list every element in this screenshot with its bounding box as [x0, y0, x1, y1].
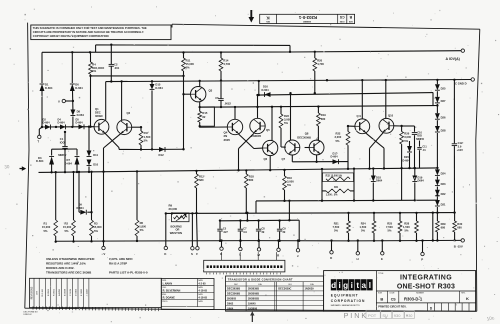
- svg-text:5%: 5%: [94, 229, 98, 233]
- wire gnd rail: [106, 80, 471, 97]
- resistor R22: [346, 125, 355, 170]
- svg-text:D: D: [330, 256, 332, 260]
- terminal E: [381, 239, 384, 260]
- resistor R6: [135, 170, 139, 242]
- svg-text:UNLESS OTHERWISE INDICATED:: UNLESS OTHERWISE INDICATED:: [46, 257, 95, 261]
- svg-text:EIA: EIA: [310, 283, 314, 286]
- svg-text:D664: D664: [418, 179, 425, 183]
- svg-text:IOO,OOO: IOO,OOO: [92, 66, 104, 70]
- svg-text:Q2: Q2: [127, 111, 131, 115]
- svg-text:K: K: [466, 296, 469, 301]
- potentiometer R9: [171, 212, 189, 222]
- svg-text:82: 82: [202, 115, 205, 119]
- svg-text:C1: C1: [60, 137, 64, 141]
- svg-text:THIS SCHEMATIC IS FURNISHED ON: THIS SCHEMATIC IS FURNISHED ONLY FOR TES…: [33, 26, 147, 30]
- wire mid rail: [39, 168, 438, 173]
- svg-text:30: 30: [4, 164, 10, 169]
- svg-text:1N3606: 1N3606: [248, 306, 258, 310]
- svg-text:SIZE: SIZE: [348, 20, 353, 22]
- R17 label: [144, 131, 151, 142]
- svg-text:7,500: 7,500: [386, 225, 393, 229]
- svg-text:4-18-65: 4-18-65: [198, 290, 207, 293]
- svg-text:.0022: .0022: [224, 102, 231, 106]
- capacitor C5: [217, 219, 222, 242]
- wire terminal F: [195, 212, 197, 247]
- wire cross to D12 rail: [119, 148, 141, 150]
- svg-text:1,500: 1,500: [360, 225, 367, 229]
- svg-text:1N645: 1N645: [248, 301, 256, 305]
- svg-text:680: 680: [457, 225, 462, 229]
- resistor R17: [139, 127, 143, 151]
- R26 label: [404, 132, 411, 143]
- svg-text:2N3639B: 2N3639B: [248, 287, 259, 291]
- svg-text:D-664: D-664: [58, 121, 66, 125]
- wire terminal S: [191, 212, 193, 246]
- C2 label: [114, 62, 120, 70]
- svg-text:R12: R12: [199, 175, 204, 179]
- svg-text:5%: 5%: [334, 229, 338, 233]
- svg-text:5%: 5%: [336, 139, 340, 143]
- C8 label: [262, 228, 266, 235]
- wire Q6 emitter: [269, 156, 271, 172]
- svg-text:CODE: CODE: [339, 20, 345, 22]
- svg-text:D-664: D-664: [77, 206, 85, 210]
- svg-text:CAPS. ARE MFD: CAPS. ARE MFD: [109, 257, 133, 261]
- D6 label: [75, 83, 83, 90]
- svg-text:t: t: [356, 281, 359, 290]
- D3 label: [36, 156, 44, 163]
- capacitor C11: [417, 141, 427, 168]
- svg-text:R4: R4: [92, 62, 96, 66]
- svg-text:DEC3009B: DEC3009B: [227, 292, 240, 296]
- svg-text:5%: 5%: [92, 69, 96, 73]
- svg-text:REVISIONS: REVISIONS: [32, 286, 34, 299]
- svg-text:R. DOANE: R. DOANE: [163, 297, 176, 300]
- svg-text:PARTS LIST A-PL-R303-0-0: PARTS LIST A-PL-R303-0-0: [109, 271, 148, 275]
- wire rail 196: [256, 200, 437, 213]
- sheet right border: [476, 29, 480, 311]
- svg-text:D-664: D-664: [262, 88, 270, 92]
- wire D6 branch: [71, 52, 74, 109]
- svg-text:D-664: D-664: [65, 161, 73, 165]
- svg-text:E Q U I P M E N T: E Q U I P M E N T: [331, 294, 358, 298]
- svg-text:C O R P O R A T I O N: C O R P O R A T I O N: [331, 299, 365, 303]
- revisions table: [30, 278, 162, 307]
- svg-text:Q1: Q1: [95, 107, 99, 111]
- handwritten PINK: [344, 311, 367, 320]
- svg-text:A IOV(A): A IOV(A): [446, 57, 460, 61]
- svg-text:WESTON: WESTON: [170, 231, 182, 235]
- terminal T: [37, 127, 42, 143]
- svg-text:1,800: 1,800: [139, 225, 146, 229]
- svg-text:Q7: Q7: [282, 157, 286, 161]
- sheet top border: [172, 24, 480, 29]
- svg-text:L.NAHN: L.NAHN: [163, 283, 173, 286]
- wire D12 row: [141, 148, 185, 150]
- svg-text:Q6: Q6: [264, 157, 268, 161]
- svg-text:D-664: D-664: [155, 86, 163, 90]
- svg-text:i: i: [351, 281, 353, 290]
- transistor Q1: [94, 119, 109, 134]
- svg-text:D-664: D-664: [36, 159, 44, 163]
- svg-text:C9: C9: [283, 228, 287, 231]
- terminal V: [102, 246, 106, 256]
- svg-text:D: D: [430, 306, 433, 310]
- svg-text:DATE: DATE: [198, 293, 203, 296]
- dec form label: [24, 311, 39, 316]
- svg-text:R23: R23: [284, 114, 289, 118]
- svg-text:V: V: [103, 252, 105, 256]
- svg-text:D21: D21: [441, 202, 446, 206]
- svg-text:A 9858: A 9858: [58, 288, 61, 296]
- transistor Q9: [355, 119, 370, 134]
- Q10 label: [388, 114, 394, 118]
- svg-text:C5: C5: [223, 228, 227, 231]
- diode D4: [60, 124, 66, 129]
- svg-text:ONE-SHOT R303: ONE-SHOT R303: [397, 284, 455, 291]
- R6 label: [139, 221, 146, 232]
- Q9 label: [357, 114, 362, 118]
- sheet left border: [25, 23, 29, 309]
- D28 label: [441, 128, 446, 132]
- Q6 label: [264, 157, 268, 161]
- D15 label: [155, 83, 163, 90]
- terminal A: [461, 49, 464, 52]
- resistor R23: [279, 106, 286, 148]
- svg-text:J 11167: J 11167: [86, 288, 88, 296]
- svg-text:5%: 5%: [44, 229, 48, 233]
- names block: [161, 279, 214, 310]
- D22 label: [441, 192, 446, 196]
- resistor R24: [372, 212, 376, 242]
- R29 label: [441, 222, 446, 230]
- wire R15 bypass loop: [200, 107, 215, 126]
- svg-text:+10V: +10V: [457, 148, 464, 152]
- R25 label: [386, 221, 393, 232]
- resistor R20: [313, 52, 317, 95]
- svg-text:R30: R30: [457, 222, 462, 226]
- svg-text:5%: 5%: [144, 138, 148, 142]
- svg-text:REV: REV: [265, 20, 269, 22]
- C7 label: [243, 228, 247, 235]
- capacitor C6: [215, 96, 231, 108]
- diode D6: [70, 84, 75, 91]
- D19 label: [418, 175, 425, 182]
- svg-text:R21: R21: [334, 221, 339, 225]
- svg-text:S: S: [191, 252, 193, 256]
- Q8 label: [297, 132, 319, 140]
- diode D18: [371, 167, 376, 201]
- svg-text:680: 680: [441, 225, 446, 229]
- resistor R21: [347, 212, 351, 242]
- D4 label: [58, 118, 66, 125]
- svg-text:H: H: [356, 257, 358, 261]
- resistor R30: [453, 211, 457, 241]
- svg-text:C2: C2: [114, 62, 118, 66]
- svg-text:R6: R6: [140, 221, 144, 225]
- D1 label: [45, 83, 53, 90]
- wire R9 rail left end: [165, 212, 167, 246]
- svg-text:PROD.: PROD.: [162, 301, 168, 303]
- terminal D: [330, 239, 333, 259]
- svg-text:R3: R3: [94, 222, 98, 226]
- terminal B: [454, 239, 465, 249]
- svg-text:R19: R19: [321, 113, 326, 117]
- svg-text:B: B: [380, 296, 383, 301]
- resistor R26: [394, 125, 404, 201]
- svg-text:R14: R14: [223, 59, 228, 63]
- resistor R14: [219, 52, 223, 98]
- svg-text:D-664: D-664: [403, 158, 411, 162]
- svg-text:DATE: DATE: [198, 286, 203, 289]
- svg-text:1,500 ; 5%: 1,500 ; 5%: [326, 193, 338, 196]
- svg-text:R. SILVERMAN: R. SILVERMAN: [163, 290, 181, 293]
- svg-text:P: P: [421, 258, 423, 262]
- capacitor C8: [256, 219, 261, 242]
- Q7 label: [282, 157, 286, 161]
- diode D11: [87, 127, 99, 157]
- svg-text:NUMBER: NUMBER: [302, 20, 311, 22]
- wire top rail A (+10V): [42, 51, 461, 53]
- resistor R2: [72, 171, 76, 243]
- svg-text:5%: 5%: [405, 229, 409, 233]
- transistor Q5: [250, 118, 265, 133]
- svg-text:R11: R11: [186, 59, 191, 63]
- svg-text:5%: 5%: [287, 183, 291, 187]
- svg-text:DATE: DATE: [198, 300, 203, 303]
- svg-text:R 9601: R 9601: [54, 288, 56, 296]
- diode D1: [40, 84, 45, 91]
- wire Q9 collector: [361, 79, 363, 119]
- svg-text:10c.: 10c.: [486, 315, 495, 321]
- svg-text:5%: 5%: [388, 229, 392, 233]
- diode D10: [87, 160, 99, 172]
- svg-text:D3: D3: [38, 156, 42, 160]
- R22 label: [335, 132, 342, 143]
- R19 label: [321, 113, 326, 121]
- svg-text:MAYNARD. MASSACHUSETTS: MAYNARD. MASSACHUSETTS: [331, 304, 360, 307]
- transistor Q3: [191, 87, 206, 102]
- wire Q4 collector: [234, 106, 236, 119]
- svg-text:g: g: [343, 281, 348, 290]
- wire diode row: [41, 126, 94, 129]
- Q2 label: [127, 111, 131, 115]
- resistor R31: [322, 187, 354, 196]
- transistor Q8: [309, 140, 324, 155]
- capacitor C7: [238, 219, 243, 242]
- resistor R32: [323, 173, 354, 182]
- C9 label: [283, 228, 287, 235]
- svg-text:T: T: [37, 139, 39, 143]
- svg-text:R29: R29: [441, 222, 446, 226]
- Q3 label: [209, 89, 213, 93]
- svg-text:930: 930: [394, 313, 401, 318]
- svg-text:Q5: Q5: [266, 128, 270, 132]
- resistor R15: [198, 106, 202, 128]
- wire bottom rail: [56, 239, 461, 242]
- svg-text:R22: R22: [336, 132, 341, 136]
- D2 label: [43, 118, 51, 125]
- capacitor C10: [402, 126, 425, 169]
- svg-text:CS: CS: [391, 297, 397, 301]
- D5 label: [76, 118, 84, 125]
- svg-text:D-664: D-664: [75, 86, 83, 90]
- left margin arrow: [20, 166, 27, 171]
- svg-text:4-2-65: 4-2-65: [198, 283, 206, 286]
- connector strip: [204, 260, 285, 274]
- sheet bottom border: [25, 308, 477, 311]
- mid rail dots left: [50, 171, 90, 174]
- diode D19: [412, 167, 417, 202]
- svg-text:DIODES ARE D-662.: DIODES ARE D-662.: [46, 266, 75, 270]
- R9 maker label: [170, 224, 182, 235]
- svg-text:K: K: [266, 15, 270, 20]
- D27 label: [441, 99, 446, 103]
- svg-text:D-664: D-664: [77, 113, 85, 117]
- svg-text:B: B: [349, 15, 352, 19]
- D21 label: [441, 202, 446, 206]
- svg-text:SU: SU: [382, 313, 388, 318]
- diode D5: [79, 124, 85, 129]
- svg-text:D23: D23: [441, 182, 446, 186]
- svg-text:15,000: 15,000: [186, 62, 195, 66]
- svg-text:R28: R28: [404, 221, 409, 225]
- svg-text:D11: D11: [93, 153, 98, 157]
- svg-text:39: 39: [283, 231, 286, 234]
- node A label: [446, 57, 460, 61]
- svg-text:TRANSISTORS ARE DEC 3639B: TRANSISTORS ARE DEC 3639B: [46, 271, 92, 275]
- svg-text:R25: R25: [387, 221, 392, 225]
- svg-text:D27: D27: [441, 99, 446, 103]
- svg-text:R1: R1: [44, 222, 48, 226]
- svg-text:CIRCUITS ARE PROPRIETARY IN NA: CIRCUITS ARE PROPRIETARY IN NATURE AND S…: [33, 30, 144, 34]
- resistor R29: [436, 207, 440, 242]
- junction dots mid rails: [326, 79, 328, 81]
- svg-text:680: 680: [321, 117, 326, 121]
- svg-text:MMFD: MMFD: [416, 137, 424, 141]
- svg-text:TITLE: TITLE: [378, 273, 384, 275]
- svg-text:680: 680: [249, 178, 254, 182]
- svg-text:39: 39: [262, 231, 265, 234]
- wire R4 to Q3 base: [91, 75, 185, 77]
- svg-text:.027: .027: [223, 231, 228, 234]
- svg-text:DEC: DEC: [234, 284, 239, 286]
- Q1 label: [95, 107, 103, 118]
- diode D2: [45, 125, 51, 130]
- wire upper rail P: [96, 45, 290, 52]
- svg-text:D-664: D-664: [45, 86, 53, 90]
- svg-text:DEC3639C: DEC3639C: [278, 287, 291, 291]
- svg-text:B -15V: B -15V: [454, 245, 463, 249]
- R24 label: [360, 221, 367, 232]
- terminal K: [220, 239, 223, 256]
- resistor R1: [54, 171, 58, 243]
- svg-text:INTEGRATING: INTEGRATING: [400, 274, 452, 281]
- svg-text:P I N K: P I N K: [344, 311, 367, 320]
- wire rail 3: [200, 92, 438, 107]
- capacitor C2: [109, 45, 114, 83]
- svg-text:DEC3639B: DEC3639B: [227, 287, 240, 291]
- svg-text:R32 15,000 5%: R32 15,000 5%: [326, 174, 343, 177]
- terminal K1: [164, 246, 167, 256]
- D8 label: [77, 110, 85, 117]
- svg-text:CS: CS: [339, 15, 344, 19]
- svg-text:i: i: [338, 281, 340, 290]
- svg-text:COPYRIGHT 1968 BY DIGITAL EQUI: COPYRIGHT 1968 BY DIGITAL EQUIPMENT CORP…: [33, 34, 109, 38]
- transistor Q4: [227, 119, 242, 134]
- svg-text:15,000: 15,000: [63, 225, 72, 229]
- terminal C-D gnd: [471, 78, 474, 81]
- wire Q1-Q2 cross: [102, 133, 121, 246]
- svg-text:B 9938: B 9938: [65, 288, 67, 296]
- chart arrow: [250, 311, 254, 322]
- wire Q7 emitter: [291, 155, 293, 162]
- svg-text:2N3605B: 2N3605B: [248, 297, 259, 301]
- D26 label: [441, 116, 446, 120]
- svg-text:J: J: [297, 254, 299, 258]
- top title strip: [260, 14, 355, 23]
- R14 label: [223, 59, 230, 67]
- wire Q5 collector: [256, 94, 258, 118]
- diode D7: [75, 149, 80, 172]
- transistor Q10: [379, 118, 394, 133]
- svg-text:TRANSISTOR & DIODE CONVERSI: TRANSISTOR & DIODE CONVERSION CHART: [228, 278, 293, 282]
- svg-text:15,000: 15,000: [93, 225, 102, 229]
- diode D12: [159, 147, 166, 157]
- connector strip stubs: [221, 252, 276, 260]
- svg-text:3,000: 3,000: [335, 135, 342, 139]
- wire D3-D7 top: [52, 148, 77, 150]
- R3 label: [93, 222, 102, 233]
- svg-text:D 0463: D 0463: [75, 288, 77, 296]
- wire caps rail: [220, 200, 300, 242]
- capacitor C1: [58, 131, 67, 172]
- wire Q1 collector: [105, 82, 107, 120]
- wire Q8 base: [305, 147, 310, 149]
- R12 label: [199, 175, 204, 183]
- resistor R11: [182, 53, 186, 95]
- C5 label: [223, 228, 228, 235]
- gnd label: [455, 81, 467, 85]
- svg-text:680: 680: [199, 178, 204, 182]
- D7 label: [65, 158, 73, 165]
- svg-text:3.9: 3.9: [458, 145, 462, 149]
- notes text: [46, 257, 148, 275]
- resistor R28: [415, 212, 419, 242]
- svg-text:D22: D22: [441, 192, 446, 196]
- diode D3: [49, 149, 54, 172]
- svg-text:15,000: 15,000: [42, 225, 51, 229]
- svg-text:1N3639: 1N3639: [305, 287, 315, 291]
- wire emitter bus: [292, 162, 348, 169]
- wire Q6 collector: [271, 106, 273, 141]
- R18 label: [249, 175, 254, 183]
- R11 label: [186, 59, 195, 70]
- svg-text:PRINTED CIRCUIT REV.: PRINTED CIRCUIT REV.: [378, 306, 406, 309]
- svg-text:4,700: 4,700: [317, 62, 324, 66]
- diode D17: [331, 151, 339, 164]
- diode D16: [262, 85, 271, 97]
- svg-text:DEC: DEC: [95, 110, 101, 114]
- svg-text:K: K: [164, 252, 167, 256]
- svg-text:d: d: [331, 281, 336, 290]
- wire R32 sides: [321, 168, 355, 202]
- svg-text:3.9: 3.9: [243, 231, 247, 234]
- svg-text:NUMBER: NUMBER: [416, 293, 424, 295]
- resistor R12: [195, 170, 199, 213]
- digital logo: [331, 279, 373, 290]
- svg-text:RESISTORS ARE 1/4W ,10%: RESISTORS ARE 1/4W ,10%: [46, 262, 86, 266]
